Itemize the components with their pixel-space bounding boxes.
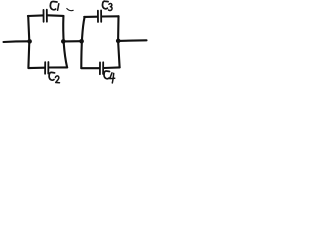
wire left loop top segment 1 <box>28 14 43 17</box>
wire left loop bottom segment 2 <box>49 66 67 68</box>
label C3 <box>103 1 113 10</box>
wire right loop right vertical <box>118 16 120 67</box>
wire right loop top segment 1 <box>84 16 97 18</box>
wire left loop top segment 2 <box>48 14 64 17</box>
wire right loop bottom segment 2 <box>104 66 120 69</box>
node junction right <box>116 39 121 44</box>
capacitor C2 <box>45 62 48 74</box>
node junction left <box>27 39 32 44</box>
label C2 <box>49 72 59 82</box>
capacitor C1 <box>44 10 47 22</box>
wire right loop top segment 2 <box>102 15 119 17</box>
wire middle link <box>63 40 81 42</box>
capacitor C3 <box>98 10 101 22</box>
label C1 <box>50 1 58 10</box>
wire right lead <box>118 39 146 42</box>
capacitor C4 <box>100 62 103 74</box>
wire left loop right vertical <box>63 16 67 67</box>
label C4 <box>104 71 115 83</box>
wire left lead <box>4 40 30 43</box>
wire left loop bottom segment 1 <box>28 67 44 70</box>
stray mark <box>67 9 73 11</box>
wire left loop left vertical <box>28 16 29 68</box>
wire right loop left vertical <box>81 17 84 68</box>
wire right loop bottom segment 1 <box>81 67 99 69</box>
node junction mid-right <box>79 39 84 44</box>
node junction mid-left <box>61 39 66 44</box>
